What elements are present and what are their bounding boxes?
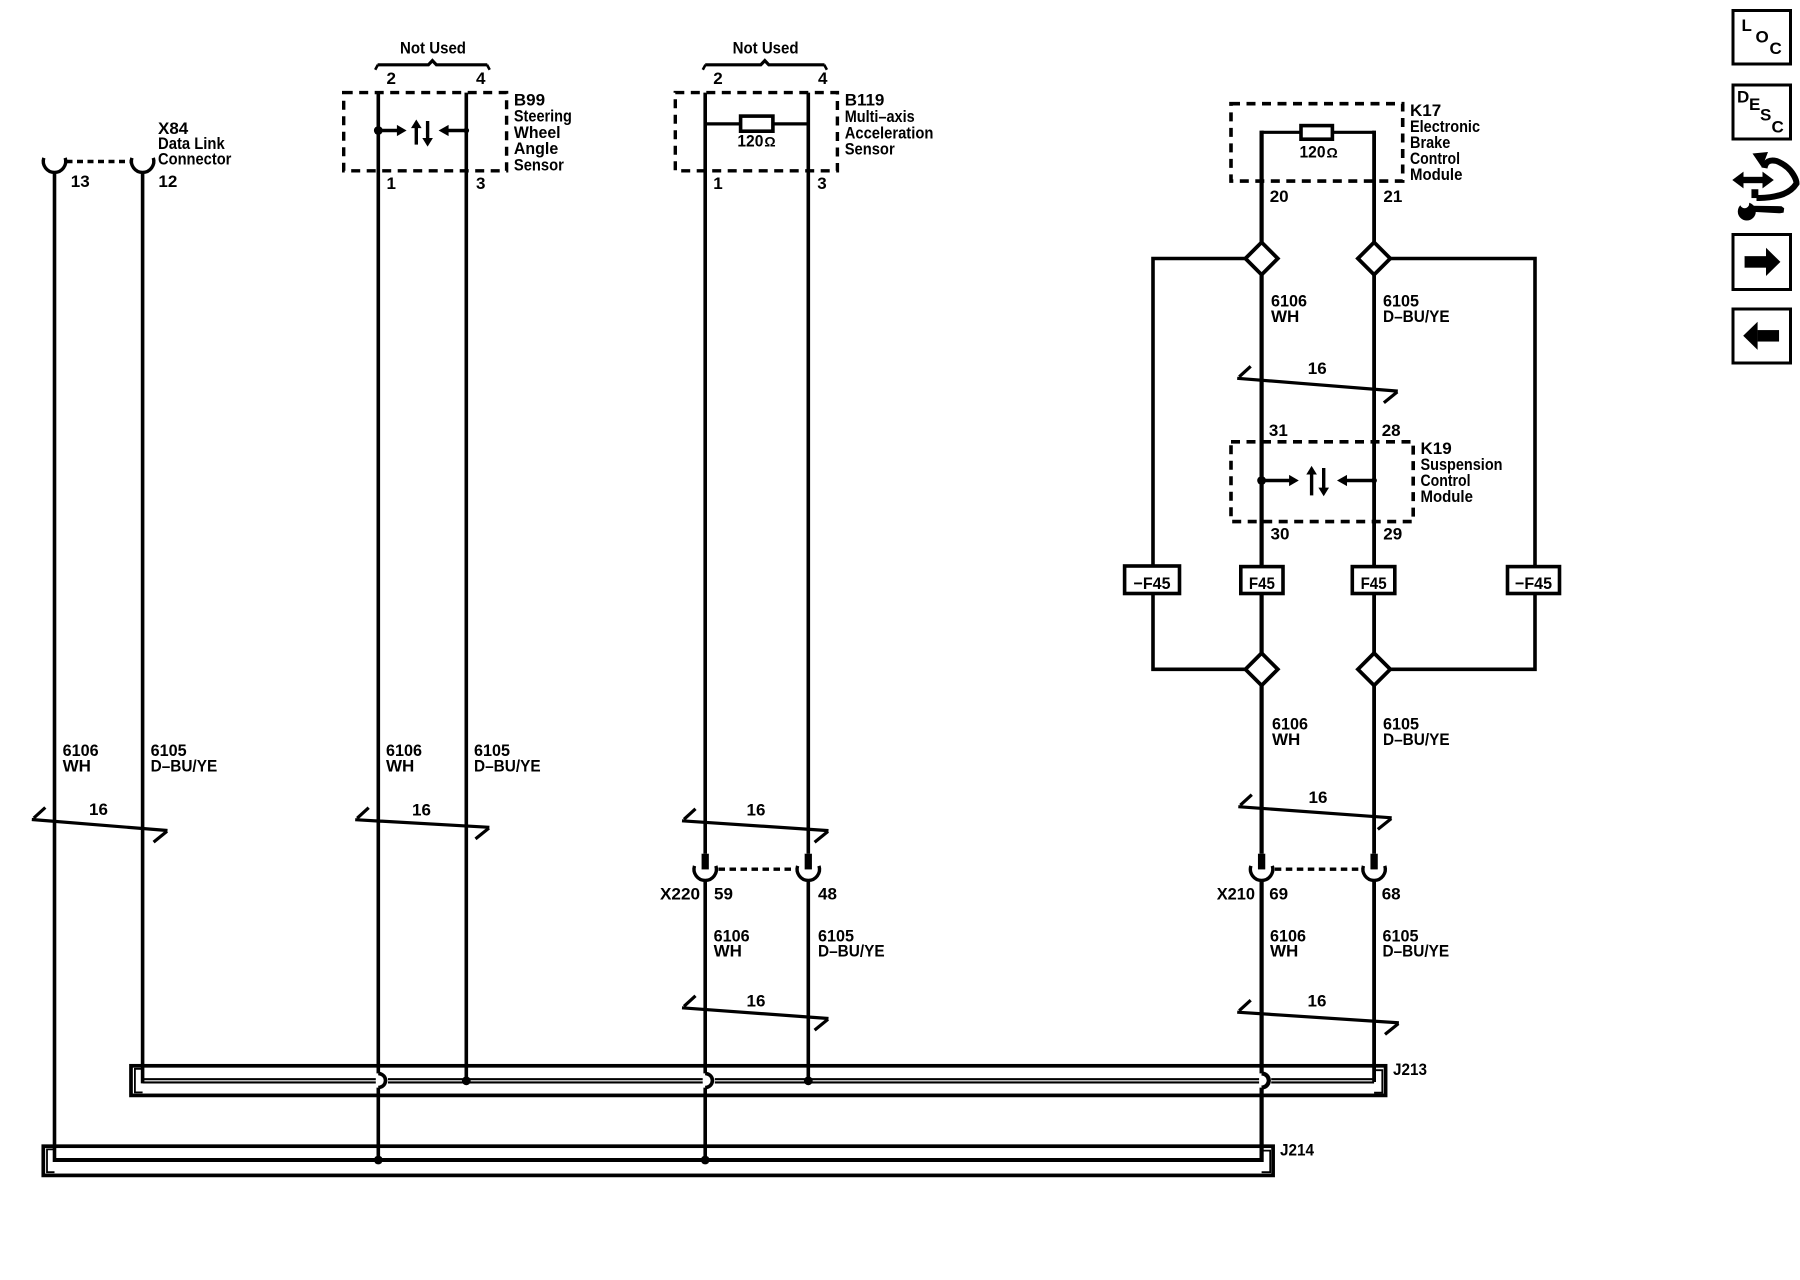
svg-text:WH: WH	[386, 756, 414, 775]
svg-text:Not Used: Not Used	[733, 39, 799, 58]
svg-text:Ω: Ω	[1327, 145, 1338, 161]
label X210	[1217, 885, 1255, 904]
connector X220 pin 59 terminal stub	[702, 854, 709, 870]
wire label 6106 WH (X84 column)	[63, 741, 99, 775]
svg-text:20: 20	[1270, 187, 1289, 206]
svg-text:30: 30	[1271, 524, 1290, 543]
B99 internal down arrow	[422, 121, 433, 147]
svg-text:WH: WH	[63, 756, 91, 775]
sensor B119 dashed box	[675, 93, 837, 171]
wire 6106 WH from K17 pin 20 (through K19 pin 31/30) to J214	[1259, 131, 1263, 1162]
wire label 6106 WH (X210 column)	[1270, 926, 1306, 960]
splice pack J213 outline	[131, 1066, 1386, 1096]
splice diamond upper right (6105)	[1358, 242, 1390, 274]
svg-text:−F45: −F45	[1515, 574, 1552, 593]
wire label 6106 WH (B99 column)	[386, 741, 422, 775]
K19 internal junction dot and right arrow	[1257, 475, 1299, 486]
svg-text:12: 12	[158, 172, 177, 191]
icon arrow left box	[1733, 309, 1791, 363]
module K17 dashed box	[1231, 104, 1403, 181]
pin 1 label (B99)	[387, 174, 396, 193]
label K17 Electronic Brake Control Module	[1410, 101, 1480, 184]
junction dot B119 6106 on J214	[701, 1156, 710, 1165]
svg-text:68: 68	[1382, 885, 1401, 904]
pin 48 label	[818, 884, 837, 903]
label Not Used (B119)	[733, 39, 799, 58]
pin 30 label	[1271, 524, 1290, 543]
wire 6105 D-BU/YE from X84 pin 12 to J213	[141, 172, 145, 1083]
wire label 6105 D-BU/YE (X210 column)	[1383, 926, 1450, 960]
pin 13 label	[71, 172, 90, 191]
connector X220 mating dashed line	[719, 868, 796, 871]
connector X220 pin 59 symbol	[694, 866, 716, 881]
svg-text:WH: WH	[1272, 730, 1300, 749]
icon data link communications (arrows and wrench)	[1732, 152, 1796, 221]
B99 internal up arrow	[411, 120, 422, 145]
svg-text:Ω: Ω	[764, 133, 775, 149]
svg-text:4: 4	[476, 69, 486, 88]
pin 2 label (B99)	[387, 69, 396, 88]
pin 4 label (B119)	[818, 69, 828, 88]
fuse box F45 (left)	[1241, 567, 1283, 594]
pin 3 label (B99)	[476, 174, 485, 193]
wire 6106 WH from B99 pin 1 to J214	[376, 93, 380, 1162]
svg-text:Sensor: Sensor	[514, 155, 564, 174]
wire jog over J213 (K19 6106 wire)	[1262, 1073, 1269, 1087]
pin 20 label	[1270, 187, 1289, 206]
svg-text:21: 21	[1383, 187, 1402, 206]
wire gauge slash 16 (X210 upper)	[1238, 788, 1391, 829]
label J213	[1393, 1060, 1427, 1079]
svg-text:1: 1	[713, 174, 722, 193]
svg-text:X220: X220	[660, 884, 700, 903]
label K19 Suspension Control Module	[1421, 439, 1503, 506]
pin 12 label	[158, 172, 177, 191]
junction dot B119 6105 on J213	[804, 1076, 813, 1085]
wire label 6106 WH (K19 lower)	[1272, 715, 1308, 749]
svg-text:O: O	[1756, 28, 1769, 47]
connector X210 pin 69 terminal stub	[1258, 854, 1265, 870]
resistor 120 ohm (B119) body	[741, 116, 773, 131]
fuse box F45 (right)	[1352, 567, 1395, 594]
wire 6106 WH from X84 pin 13 to J214	[53, 172, 57, 1162]
value label 120 ohm (K17)	[1300, 143, 1338, 162]
svg-text:16: 16	[412, 800, 431, 819]
svg-text:48: 48	[818, 884, 837, 903]
svg-text:120: 120	[1300, 143, 1326, 162]
connector X210 pin 68 terminal stub	[1371, 854, 1378, 870]
wire 6105 D-BU/YE from B99 pin 3 to J213	[464, 93, 468, 1082]
sensor B99 dashed box	[344, 93, 507, 171]
svg-text:D–BU/YE: D–BU/YE	[1383, 307, 1450, 326]
B99 internal left arrow and dot	[439, 125, 470, 136]
wire jog over J213 (B119 6106 wire)	[705, 1073, 712, 1087]
module K19 dashed box	[1231, 442, 1413, 522]
wire label 6105 D-BU/YE (X84 column)	[151, 741, 218, 775]
svg-text:D–BU/YE: D–BU/YE	[1383, 942, 1450, 961]
svg-text:16: 16	[1308, 992, 1327, 1011]
svg-text:D–BU/YE: D–BU/YE	[818, 942, 885, 961]
connector X220 pin 48 symbol	[797, 866, 819, 881]
svg-text:D–BU/YE: D–BU/YE	[474, 756, 541, 775]
svg-text:Module: Module	[1410, 165, 1462, 184]
wire outer loop right (splice branch 6105)	[1390, 259, 1535, 670]
svg-text:Connector: Connector	[158, 150, 232, 169]
svg-text:16: 16	[747, 992, 766, 1011]
svg-text:S: S	[1760, 106, 1771, 125]
pin 59 label	[714, 884, 733, 903]
connector X220 pin 48 terminal stub	[805, 854, 812, 870]
junction dot B99 6106 on J214	[374, 1156, 383, 1165]
icon DESC box	[1733, 85, 1791, 139]
svg-text:C: C	[1772, 117, 1784, 136]
label Not Used (B99)	[400, 39, 466, 58]
svg-text:69: 69	[1269, 885, 1288, 904]
svg-text:3: 3	[817, 174, 826, 193]
wire jog over J213 (B99 6106 wire)	[378, 1073, 385, 1087]
wire label 6106 WH (X220 column)	[714, 926, 750, 960]
svg-text:L: L	[1742, 16, 1752, 35]
wire 6105 D-BU/YE from K17 pin 21 (through K19 pin 28/29) to J213	[1372, 131, 1376, 1082]
B99 internal junction dot and right arrow	[374, 125, 407, 136]
svg-text:31: 31	[1269, 421, 1288, 440]
pin 2 label (B119)	[713, 69, 722, 88]
wire outer loop left (splice branch 6106)	[1153, 259, 1246, 670]
splice diamond lower left (6106)	[1245, 653, 1277, 685]
pin 68 label	[1382, 885, 1401, 904]
pin 31 label	[1269, 421, 1288, 440]
svg-text:WH: WH	[1271, 307, 1299, 326]
bracket over B119 pins 2 and 4	[703, 61, 827, 70]
svg-text:28: 28	[1382, 421, 1401, 440]
wire label 6105 D-BU/YE (K19 lower)	[1383, 715, 1450, 749]
svg-text:D: D	[1737, 88, 1749, 107]
pin 28 label	[1382, 421, 1401, 440]
wire gauge slash 16 (K17 to K19)	[1237, 359, 1398, 403]
resistor 120 ohm (B119) leads	[705, 122, 808, 125]
splice pack J214 bus conductor	[55, 1158, 1262, 1162]
pin 3 label (B119)	[817, 174, 826, 193]
connector X84 pin 12 symbol	[131, 158, 153, 173]
connector X210 mating dashed line	[1275, 868, 1361, 871]
fuse box -F45 (far left branch)	[1125, 566, 1180, 594]
svg-text:29: 29	[1383, 524, 1402, 543]
svg-text:C: C	[1770, 39, 1782, 58]
wire gauge slash 16 (X220 lower)	[682, 992, 829, 1031]
svg-text:16: 16	[89, 800, 108, 819]
svg-text:Module: Module	[1421, 487, 1473, 506]
svg-text:E: E	[1749, 95, 1760, 114]
svg-text:J214: J214	[1280, 1141, 1314, 1160]
label B119 Multi-axis Acceleration Sensor	[845, 91, 934, 159]
bracket over B99 pins 2 and 4	[375, 61, 490, 70]
svg-text:WH: WH	[1270, 942, 1298, 961]
icon arrow right box	[1733, 235, 1791, 290]
value label 120 ohm (B119)	[737, 131, 775, 150]
svg-text:Not Used: Not Used	[400, 39, 466, 58]
svg-text:120: 120	[737, 131, 763, 150]
svg-text:4: 4	[818, 69, 828, 88]
svg-text:F45: F45	[1249, 574, 1275, 593]
connector X84 mating dashed line	[67, 160, 131, 163]
splice pack J213 bus conductor	[143, 1079, 1375, 1082]
wire label 6105 D-BU/YE (K17 upper)	[1383, 292, 1450, 326]
svg-text:3: 3	[476, 174, 485, 193]
connector X210 pin 69 symbol	[1250, 866, 1272, 881]
pin 4 label (B99)	[476, 69, 486, 88]
resistor 120 ohm (K17) body	[1301, 126, 1332, 140]
pin 29 label	[1383, 524, 1402, 543]
svg-text:13: 13	[71, 172, 90, 191]
connector X210 pin 68 symbol	[1363, 866, 1385, 881]
label X84 Data Link Connector	[158, 119, 232, 169]
pin 21 label	[1383, 187, 1402, 206]
wire gauge slash 16 (X210 lower)	[1237, 992, 1399, 1035]
svg-text:D–BU/YE: D–BU/YE	[151, 756, 218, 775]
svg-text:16: 16	[1309, 788, 1328, 807]
K19 internal up arrow	[1306, 466, 1317, 496]
svg-text:2: 2	[713, 69, 722, 88]
pin 1 label (B119)	[713, 174, 722, 193]
wire gauge slash 16 (B99 column)	[355, 800, 489, 839]
wire label 6105 D-BU/YE (X220 column)	[818, 926, 885, 960]
splice diamond upper left (6106)	[1245, 242, 1277, 274]
svg-text:WH: WH	[714, 942, 742, 961]
wire gauge slash 16 (X220 upper)	[682, 801, 829, 843]
wire gauge slash 16 (X84 column)	[32, 800, 168, 842]
K19 internal left arrow and dot	[1337, 475, 1377, 486]
svg-text:D–BU/YE: D–BU/YE	[1383, 730, 1450, 749]
svg-text:16: 16	[1308, 359, 1327, 378]
svg-text:−F45: −F45	[1134, 574, 1171, 593]
svg-text:Sensor: Sensor	[845, 140, 895, 159]
svg-text:J213: J213	[1393, 1060, 1427, 1079]
wire 6106 WH from B119 pin 1 to J214	[703, 93, 707, 1162]
svg-text:59: 59	[714, 884, 733, 903]
pin 69 label	[1269, 885, 1288, 904]
wire label 6105 D-BU/YE (B99 column)	[474, 741, 541, 775]
splice pack J214 outline	[43, 1146, 1273, 1175]
junction dot B99 6105 on J213	[462, 1076, 471, 1085]
svg-text:F45: F45	[1361, 574, 1387, 593]
label B99 Steering Wheel Angle Sensor	[514, 91, 572, 175]
wire 6105 D-BU/YE from B119 pin 3 to J213	[806, 93, 810, 1082]
svg-text:16: 16	[747, 801, 766, 820]
splice diamond lower right (6105)	[1358, 653, 1390, 685]
label X220	[660, 884, 700, 903]
connector X84 pin 13 symbol	[43, 158, 65, 173]
svg-text:1: 1	[387, 174, 396, 193]
label J214	[1280, 1141, 1314, 1160]
fuse box -F45 (far right branch)	[1508, 567, 1560, 594]
svg-text:2: 2	[387, 69, 396, 88]
svg-text:X210: X210	[1217, 885, 1255, 904]
wire label 6106 WH (K17 upper)	[1271, 292, 1307, 326]
icon LOC box	[1733, 11, 1791, 65]
K19 internal down arrow	[1318, 468, 1329, 496]
resistor 120 ohm (K17) leads	[1262, 131, 1375, 134]
